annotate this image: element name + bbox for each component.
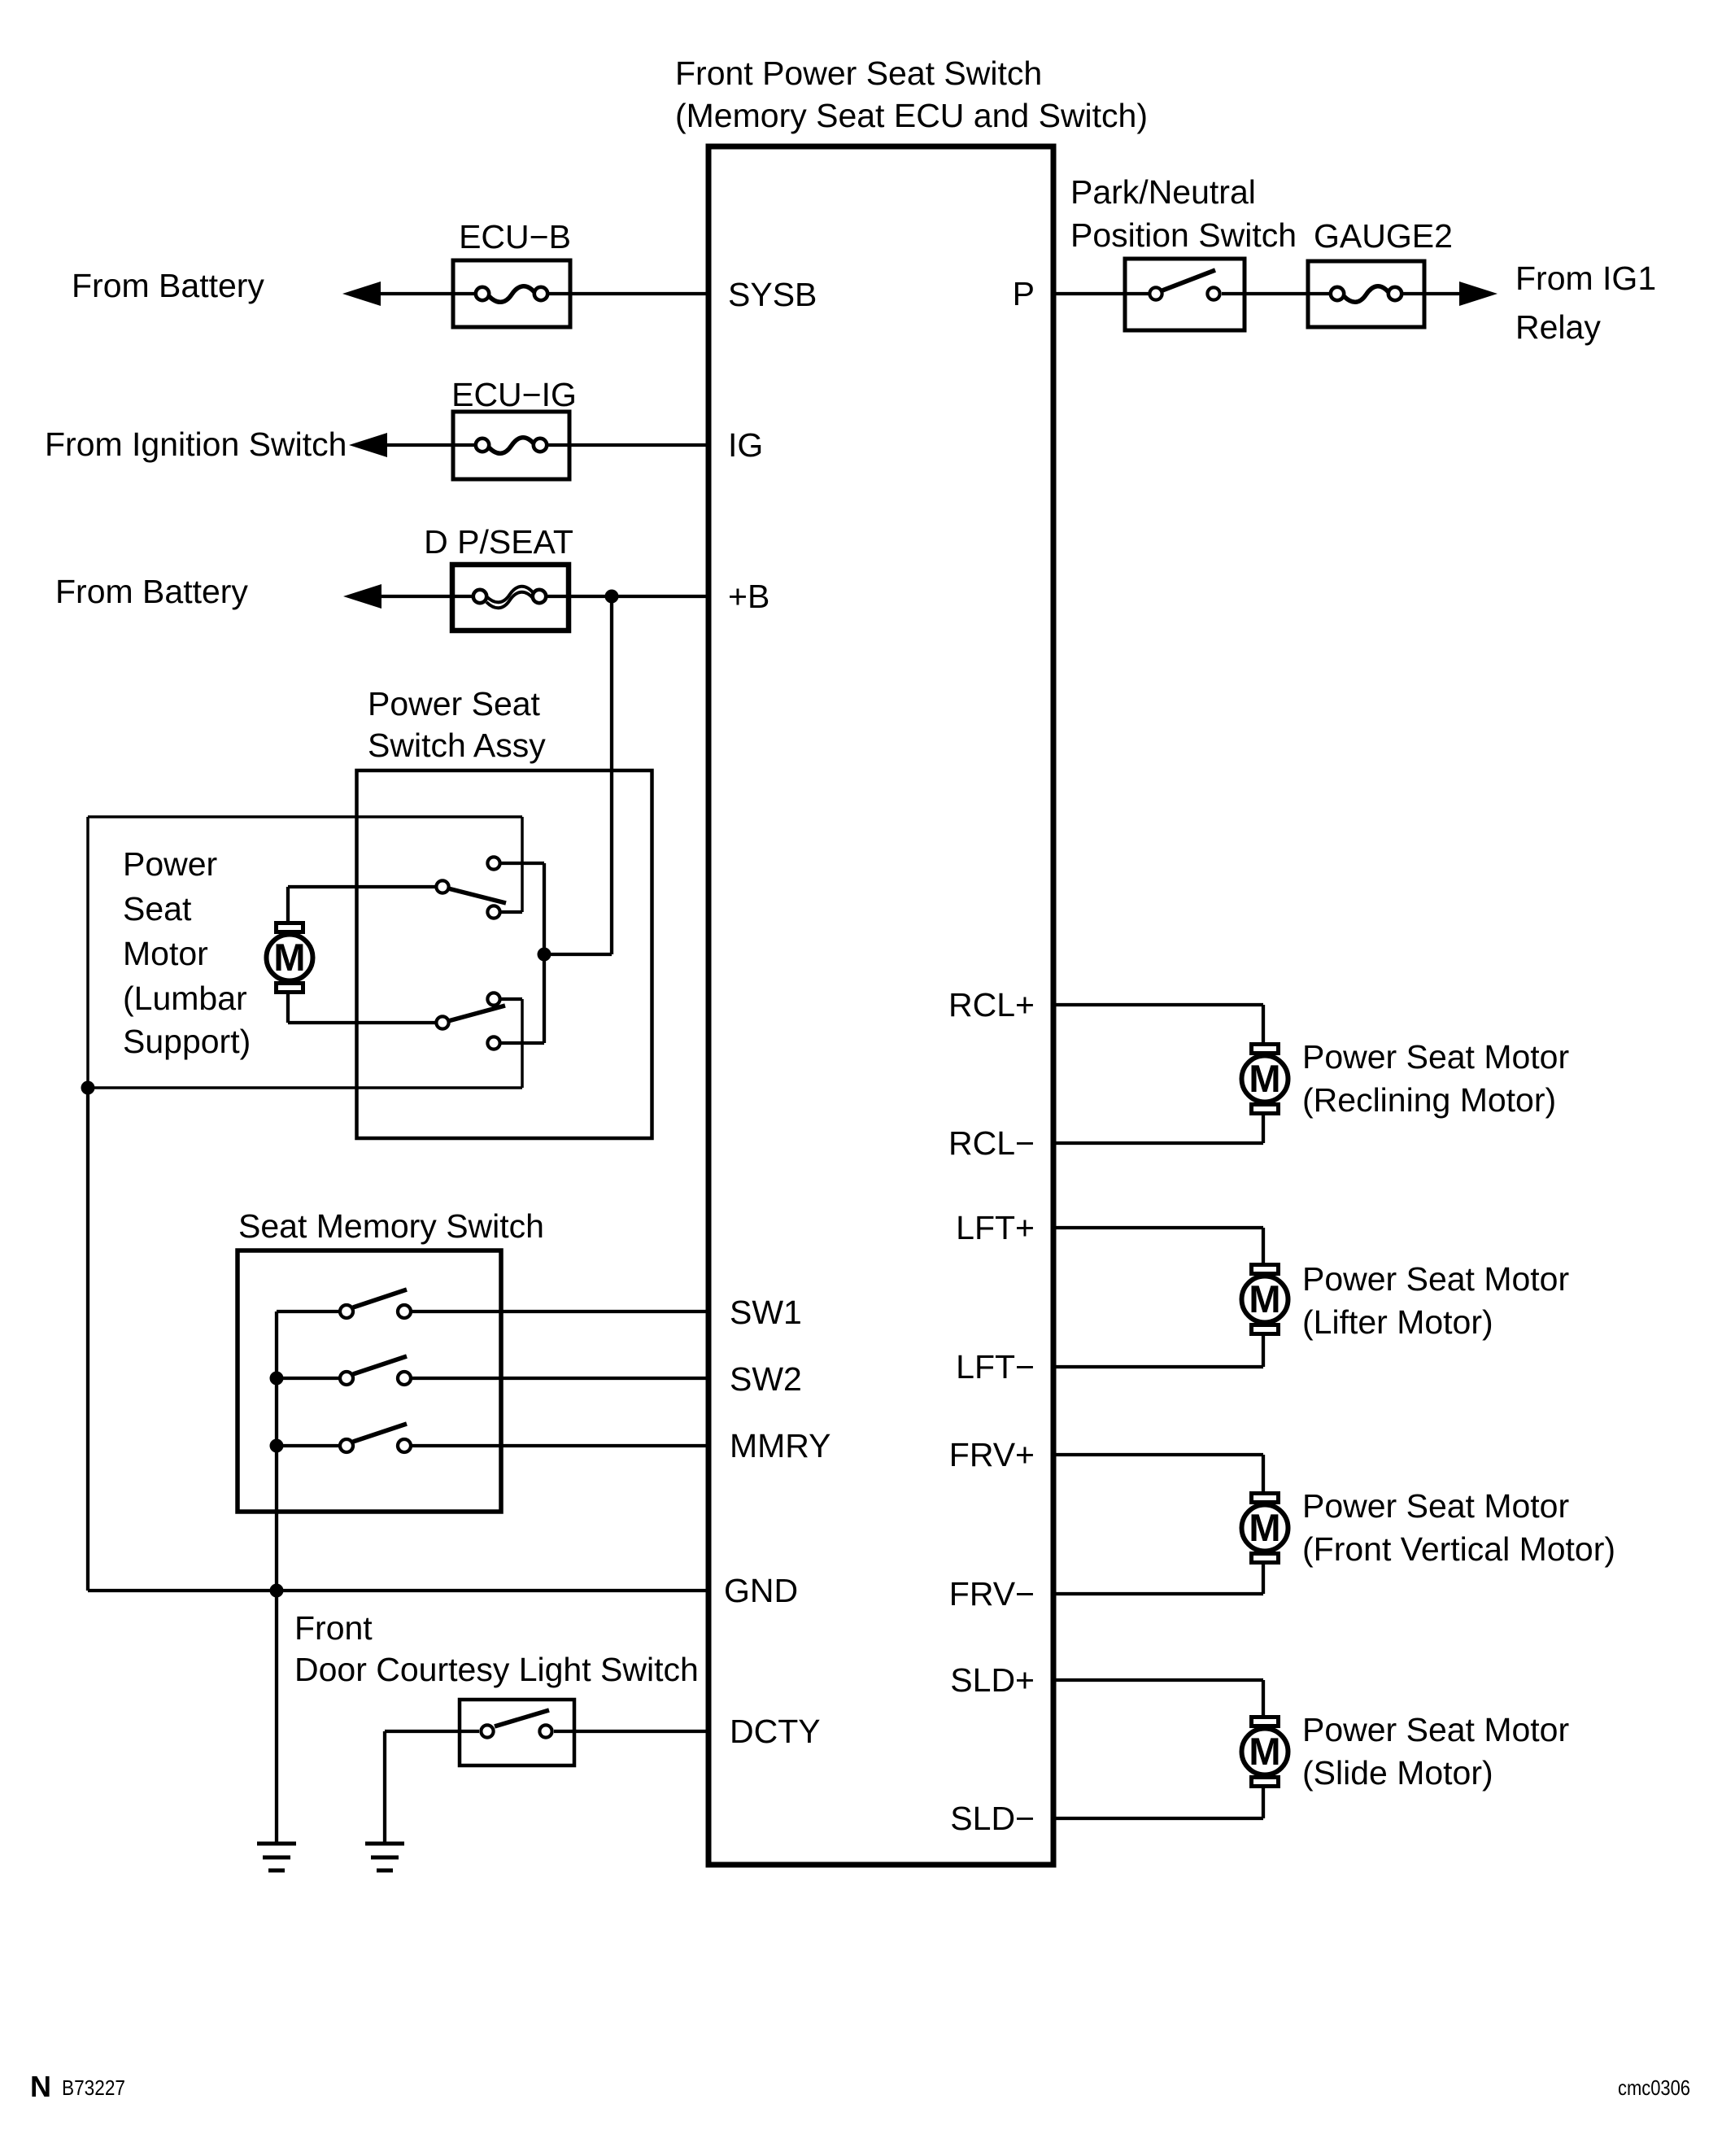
motor symbol M (lumbar) bbox=[267, 923, 313, 993]
node MMRY bus junction bbox=[270, 1439, 284, 1453]
svg-text:DCTY: DCTY bbox=[730, 1713, 821, 1750]
wire MMRY to ECU bbox=[412, 1444, 706, 1447]
svg-text:FRV+: FRV+ bbox=[949, 1436, 1035, 1473]
svg-text:Front: Front bbox=[294, 1609, 373, 1647]
svg-text:Front Power Seat Switch: Front Power Seat Switch bbox=[675, 55, 1042, 92]
svg-text:LFT+: LFT+ bbox=[956, 1209, 1035, 1246]
wire motor leg RCL bbox=[1262, 1005, 1265, 1143]
label Power Seat Motor (Front Vertical Motor) bbox=[1302, 1487, 1615, 1568]
label Power Seat Switch Assy bbox=[368, 685, 546, 764]
svg-text:RCL+: RCL+ bbox=[948, 986, 1035, 1023]
svg-text:(Front Vertical Motor): (Front Vertical Motor) bbox=[1302, 1530, 1615, 1568]
ECU box: Front Power Seat Switch (Memory Seat ECU and Switch) bbox=[708, 146, 1053, 1865]
wire DCTY bbox=[554, 1730, 706, 1733]
svg-text:P: P bbox=[1013, 275, 1035, 312]
svg-text:GAUGE2: GAUGE2 bbox=[1314, 217, 1453, 255]
wire SLD- bbox=[1053, 1817, 1263, 1820]
svg-text:Seat: Seat bbox=[123, 890, 192, 927]
svg-text:Seat Memory Switch: Seat Memory Switch bbox=[238, 1207, 544, 1245]
motor M (Slide Motor) bbox=[1242, 1717, 1288, 1787]
svg-text:Switch Assy: Switch Assy bbox=[368, 727, 546, 764]
switch assy upper switch bbox=[436, 857, 506, 918]
wire SLD+ bbox=[1053, 1678, 1263, 1682]
svg-text:From Battery: From Battery bbox=[55, 573, 248, 610]
fuse ECU-B bbox=[453, 260, 570, 327]
wire SYSB to ECU-B fuse bbox=[358, 292, 482, 295]
wire motor leg LFT bbox=[1262, 1228, 1265, 1367]
motor M (Lifter Motor) bbox=[1242, 1265, 1288, 1334]
wire upper switch bottom contact to motor box edge bbox=[501, 910, 522, 914]
motor M (Reclining Motor) bbox=[1242, 1045, 1288, 1114]
wire GND row bbox=[88, 1589, 706, 1592]
title: Front Power Seat Switch (Memory Seat ECU and Switch) bbox=[675, 55, 1148, 134]
wire motor leg FRV bbox=[1262, 1455, 1265, 1594]
svg-text:From Ignition Switch: From Ignition Switch bbox=[45, 426, 347, 463]
switch assy lower switch bbox=[436, 993, 505, 1049]
fuse ECU-IG bbox=[453, 412, 569, 479]
svg-text:ECU−IG: ECU−IG bbox=[451, 376, 577, 413]
svg-text:Motor: Motor bbox=[123, 935, 208, 972]
node motor box corner bbox=[81, 1081, 95, 1095]
svg-text:M: M bbox=[1249, 1277, 1280, 1320]
wire RCL+ bbox=[1053, 1003, 1263, 1006]
wire GAUGE2 to From IG1 Relay bbox=[1403, 292, 1464, 295]
wire motor box corner down to GND row bbox=[86, 1088, 89, 1591]
wire motor leg SLD bbox=[1262, 1680, 1265, 1818]
svg-text:IG: IG bbox=[728, 426, 763, 464]
box Power Seat Switch Assy bbox=[357, 770, 652, 1138]
junction +B node bbox=[605, 590, 619, 604]
svg-text:Power: Power bbox=[123, 845, 217, 883]
svg-text:N: N bbox=[30, 2070, 51, 2103]
wire +B to D P/SEAT fuse bbox=[359, 595, 480, 598]
svg-text:ECU−B: ECU−B bbox=[459, 218, 571, 255]
svg-text:Support): Support) bbox=[123, 1023, 251, 1060]
svg-text:FRV−: FRV− bbox=[949, 1575, 1035, 1613]
svg-text:Relay: Relay bbox=[1515, 308, 1601, 346]
wire LFT+ bbox=[1053, 1226, 1263, 1229]
svg-text:LFT−: LFT− bbox=[956, 1348, 1035, 1386]
motor M (Front Vertical Motor) bbox=[1242, 1494, 1288, 1563]
switch Park/Neutral Position Switch bbox=[1125, 259, 1245, 330]
svg-text:From Battery: From Battery bbox=[72, 267, 264, 304]
node assy junction bbox=[538, 948, 551, 962]
footer figure number bbox=[30, 2070, 125, 2103]
wire lumbar motor bottom to lower switch pivot bbox=[288, 992, 435, 1023]
wire Park/Neutral switch to GAUGE2 bbox=[1222, 292, 1337, 295]
wire assy junction vertical bbox=[543, 863, 546, 1043]
node SW2 bus junction bbox=[270, 1372, 284, 1386]
svg-text:Door Courtesy Light Switch: Door Courtesy Light Switch bbox=[294, 1651, 699, 1688]
wire lumbar motor top to upper switch pivot bbox=[288, 887, 435, 923]
svg-text:(Slide Motor): (Slide Motor) bbox=[1302, 1754, 1493, 1792]
label Front Door Courtesy Light Switch bbox=[294, 1609, 699, 1688]
svg-text:B73227: B73227 bbox=[62, 2075, 125, 2100]
arrow to From Ignition Switch bbox=[349, 433, 387, 457]
wire memory bus to ground bbox=[275, 1591, 278, 1844]
wire FRV+ bbox=[1053, 1453, 1263, 1456]
box Power Seat Motor (Lumbar Support) bbox=[88, 817, 522, 1088]
label Power Seat Motor (Lumbar Support) bbox=[123, 845, 251, 1060]
label Power Seat Motor (Reclining Motor) bbox=[1302, 1038, 1569, 1119]
switch MMRY bbox=[277, 1424, 411, 1452]
svg-text:+B: +B bbox=[728, 578, 769, 615]
wire courtesy switch to ground bbox=[385, 1731, 479, 1844]
label Power Seat Motor (Slide Motor) bbox=[1302, 1711, 1569, 1792]
wire memory switch bus bbox=[275, 1311, 278, 1591]
wire upper switch top contact to junction bbox=[501, 862, 544, 865]
fuse D P/SEAT (medium current) bbox=[452, 565, 569, 631]
label Power Seat Motor (Lifter Motor) bbox=[1302, 1260, 1569, 1341]
svg-text:Position Switch: Position Switch bbox=[1070, 216, 1297, 254]
node GND bus junction bbox=[270, 1584, 284, 1598]
fuse GAUGE2 bbox=[1308, 261, 1424, 327]
svg-text:Power Seat Motor: Power Seat Motor bbox=[1302, 1038, 1569, 1076]
arrow to From Battery bbox=[342, 282, 381, 306]
svg-text:M: M bbox=[273, 936, 305, 979]
svg-text:From IG1: From IG1 bbox=[1515, 260, 1656, 297]
svg-text:MMRY: MMRY bbox=[730, 1427, 831, 1464]
wire +B junction down to switch assy bbox=[610, 596, 613, 954]
ground symbol left bbox=[257, 1844, 296, 1870]
svg-text:(Memory Seat ECU and Switch): (Memory Seat ECU and Switch) bbox=[675, 97, 1148, 134]
svg-text:(Reclining Motor): (Reclining Motor) bbox=[1302, 1081, 1556, 1119]
svg-text:RCL−: RCL− bbox=[948, 1124, 1035, 1162]
svg-text:cmc0306: cmc0306 bbox=[1618, 2075, 1690, 2100]
label From IG1 Relay bbox=[1515, 260, 1656, 346]
switch Front Door Courtesy Light Switch bbox=[460, 1700, 574, 1765]
wire P to Park/Neutral Position Switch bbox=[1053, 292, 1156, 295]
svg-text:Power Seat Motor: Power Seat Motor bbox=[1302, 1260, 1569, 1298]
wire LFT- bbox=[1053, 1365, 1263, 1368]
box Seat Memory Switch bbox=[238, 1250, 501, 1512]
svg-text:M: M bbox=[1249, 1506, 1280, 1549]
wire lower switch bottom contact to junction bbox=[501, 1041, 544, 1045]
svg-text:(Lifter Motor): (Lifter Motor) bbox=[1302, 1303, 1493, 1341]
switch SW1 bbox=[277, 1290, 411, 1318]
ground symbol courtesy switch bbox=[365, 1844, 404, 1870]
svg-text:Power Seat: Power Seat bbox=[368, 685, 541, 722]
arrow to From IG1 Relay bbox=[1459, 282, 1497, 306]
wire SW2 to ECU bbox=[412, 1377, 706, 1380]
svg-text:M: M bbox=[1249, 1730, 1280, 1773]
svg-text:SW1: SW1 bbox=[730, 1294, 802, 1331]
svg-text:Power Seat Motor: Power Seat Motor bbox=[1302, 1487, 1569, 1525]
svg-text:Park/Neutral: Park/Neutral bbox=[1070, 173, 1256, 211]
svg-text:SW2: SW2 bbox=[730, 1360, 802, 1398]
wire SW1 to ECU bbox=[412, 1310, 706, 1313]
wire RCL- bbox=[1053, 1141, 1263, 1145]
wire FRV- bbox=[1053, 1592, 1263, 1595]
svg-text:Power Seat Motor: Power Seat Motor bbox=[1302, 1711, 1569, 1748]
wire assy junction to +B riser bbox=[544, 953, 612, 956]
wire IG to ECU-IG fuse bbox=[364, 443, 482, 447]
svg-text:SLD−: SLD− bbox=[950, 1800, 1035, 1837]
svg-text:SYSB: SYSB bbox=[728, 276, 817, 313]
svg-text:GND: GND bbox=[724, 1572, 798, 1609]
wire lower switch top contact to motor box edge bbox=[501, 997, 522, 1001]
svg-text:SLD+: SLD+ bbox=[950, 1661, 1035, 1699]
label Park/Neutral Position Switch bbox=[1070, 173, 1297, 254]
switch SW2 bbox=[277, 1356, 411, 1385]
svg-text:D P/SEAT: D P/SEAT bbox=[424, 523, 573, 561]
svg-text:(Lumbar: (Lumbar bbox=[123, 980, 247, 1017]
arrow to From Battery (+B) bbox=[343, 584, 381, 609]
svg-text:M: M bbox=[1249, 1057, 1280, 1100]
